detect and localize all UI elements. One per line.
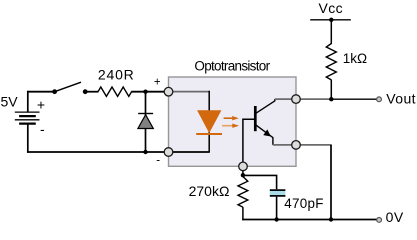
wire anode terminal to LED (horizontal) xyxy=(169,91,211,93)
svg-text:Optotransistor: Optotransistor xyxy=(194,59,270,74)
resistor 1k ohm xyxy=(326,44,336,80)
terminal - (cathode) xyxy=(164,148,173,157)
emitter arrowhead xyxy=(263,129,271,136)
svg-text:-: - xyxy=(156,154,160,166)
terminal + (anode) xyxy=(164,87,173,96)
battery B1 5V xyxy=(15,91,40,153)
base bar xyxy=(254,106,257,131)
wire emitter to emitter terminal xyxy=(273,144,296,146)
light arrow 1 xyxy=(224,116,239,120)
svg-text:1kΩ: 1kΩ xyxy=(343,51,367,66)
light arrow 2 xyxy=(222,124,239,128)
wire emitter terminal right xyxy=(296,144,332,146)
wire R to anode terminal xyxy=(131,91,168,93)
svg-text:-: - xyxy=(40,121,45,137)
wire base terminal to junction xyxy=(242,166,244,176)
svg-text:240R: 240R xyxy=(98,66,135,82)
svg-text:+: + xyxy=(154,76,161,88)
wire battery top to switch xyxy=(27,91,54,93)
terminal base xyxy=(239,162,248,171)
resistor 270k ohm xyxy=(238,177,248,208)
wire diode branch xyxy=(145,92,147,152)
wire collector terminal to node Vout xyxy=(296,98,332,100)
wire node to Vout terminal xyxy=(331,98,376,100)
collector lead xyxy=(256,99,275,113)
wire LED cathode to minus terminal xyxy=(169,151,210,153)
LED (emitter diode, orange) xyxy=(196,111,222,134)
wire Vcc to 1k xyxy=(330,20,332,44)
node junction cap/0V xyxy=(274,217,278,221)
capacitor 470pF xyxy=(270,190,286,196)
base lead xyxy=(243,119,254,162)
svg-text:5V: 5V xyxy=(1,94,19,110)
phototransistor Q1 xyxy=(243,99,296,162)
emitter lead xyxy=(256,125,273,145)
Vcc rail xyxy=(310,18,351,22)
wire collector to collector terminal xyxy=(275,98,296,100)
svg-text:Vcc: Vcc xyxy=(319,0,344,16)
resistor 240R xyxy=(98,87,132,96)
diode D1 (protection, cathode up) xyxy=(138,114,153,129)
svg-text:+: + xyxy=(37,96,45,112)
wire 270k to 0V rail xyxy=(242,207,244,220)
wire base junction to cap xyxy=(243,175,277,189)
0V open terminal xyxy=(377,218,382,223)
node junction 1k/Vout xyxy=(329,97,333,101)
wire LED vertical through-lead xyxy=(208,91,210,152)
Vout open terminal xyxy=(377,97,382,102)
node junction emitter branch/0V xyxy=(329,217,333,221)
node junction bottom of diode xyxy=(143,150,147,154)
terminal collector xyxy=(292,95,301,104)
wire switch to R 240R xyxy=(85,91,98,93)
wire cap to 0V rail xyxy=(276,197,278,220)
0V rail wire xyxy=(242,219,376,221)
svg-text:0V: 0V xyxy=(386,209,404,225)
svg-text:470pF: 470pF xyxy=(284,196,323,211)
opto package body xyxy=(169,77,297,166)
svg-text:270kΩ: 270kΩ xyxy=(189,183,230,199)
svg-text:Vout: Vout xyxy=(386,90,416,106)
switch SW1 xyxy=(52,82,87,94)
node junction base/270k xyxy=(241,173,245,177)
terminal emitter xyxy=(292,141,301,150)
bottom return wire xyxy=(27,151,169,153)
wire emitter branch down to 0V xyxy=(330,145,332,220)
wire 1k to Vout line xyxy=(330,80,332,100)
node junction top of diode xyxy=(143,90,147,94)
